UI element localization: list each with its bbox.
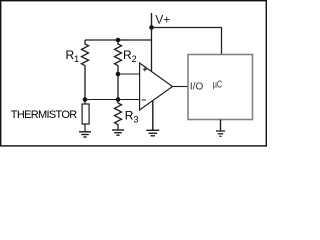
ground (thermistor) xyxy=(79,132,91,137)
wire µC to ground xyxy=(220,120,222,132)
wire op-amp negative supply xyxy=(152,101,154,130)
ground (R3) xyxy=(112,130,124,135)
resistor R1 xyxy=(66,40,89,67)
ground (op-amp) xyxy=(146,130,159,136)
node V+ junction xyxy=(149,25,154,30)
wire R2 bottom to R3 top xyxy=(117,67,119,103)
wire R1 bottom xyxy=(84,67,86,100)
node A: R1 / thermistor / inverting input xyxy=(83,97,88,102)
wire top rail xyxy=(85,39,152,41)
wire node B to non-inverting input xyxy=(118,73,140,75)
resistor R2 xyxy=(115,40,137,67)
wire node A to inverting input xyxy=(85,99,140,101)
svg-text:V+: V+ xyxy=(155,13,170,27)
power V+ xyxy=(152,13,171,28)
svg-text:THERMISTOR: THERMISTOR xyxy=(11,109,77,121)
node C: R3 top / inverting input wire xyxy=(116,97,121,102)
op-amp U1 xyxy=(140,63,173,110)
wire V+ column to op-amp supply xyxy=(151,28,153,72)
ground (µC) xyxy=(216,131,225,136)
svg-text:I/O: I/O xyxy=(190,82,204,93)
resistor R3 xyxy=(115,103,139,130)
wire V+ to microcontroller xyxy=(152,28,222,55)
svg-text:µC: µC xyxy=(213,78,223,90)
microcontroller µC xyxy=(188,55,253,120)
wire op-amp output to I/O xyxy=(173,86,189,88)
thermistor xyxy=(11,100,89,132)
node rail / R2 junction xyxy=(116,38,121,43)
node B: R2 / non-inverting input xyxy=(116,72,121,77)
